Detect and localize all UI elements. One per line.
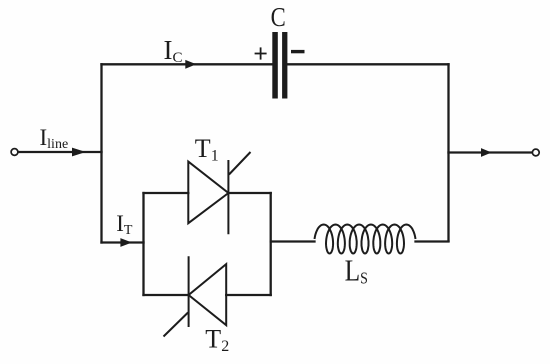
wire block left edge xyxy=(142,193,144,295)
label C xyxy=(271,3,286,32)
wire capacitor to top right xyxy=(288,63,449,65)
wire IT branch xyxy=(102,241,144,243)
wire inductor to right bus xyxy=(416,240,449,242)
wire block right edge xyxy=(270,193,272,295)
wire block to inductor xyxy=(271,240,315,242)
thyristor T1 xyxy=(188,152,250,234)
wire input horizontal xyxy=(18,151,101,153)
left input terminal xyxy=(11,149,18,156)
arrow output xyxy=(481,148,492,157)
capacitor minus polarity xyxy=(291,50,305,53)
capacitor plus polarity xyxy=(255,47,267,59)
wire left bus vertical xyxy=(100,64,102,242)
capacitor C plates xyxy=(272,32,287,99)
arrow IC xyxy=(185,60,196,69)
wire top left to capacitor xyxy=(102,63,273,65)
wire block bottom rail left xyxy=(144,294,189,296)
wire block top rail right xyxy=(228,192,270,194)
label LS xyxy=(345,254,368,288)
arrow Iline xyxy=(72,148,86,157)
wire block top rail left xyxy=(144,192,189,194)
thyristor T2 xyxy=(164,256,227,336)
output terminal xyxy=(532,149,539,156)
wire block bottom rail right xyxy=(226,294,271,296)
arrow IT xyxy=(120,238,131,247)
inductor LS coil xyxy=(315,225,416,254)
svg-text:C: C xyxy=(271,3,286,32)
wire right bus vertical xyxy=(447,64,449,241)
wire output horizontal xyxy=(449,151,533,153)
